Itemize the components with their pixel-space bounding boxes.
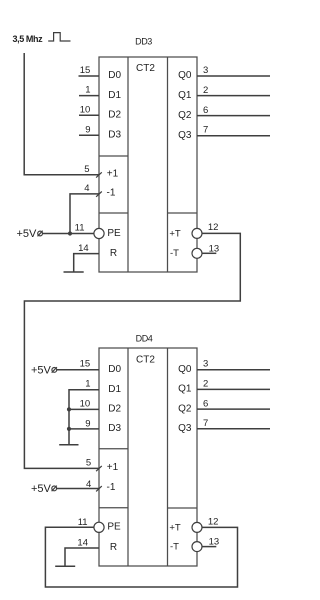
wire DD3 pin 12 (+T) to DD4 pin 5 (+1) bbox=[24, 233, 240, 468]
DD3 inner vertical line right field bbox=[167, 57, 169, 272]
svg-text:12: 12 bbox=[208, 222, 219, 233]
DD4 inner vertical line right field bbox=[167, 348, 169, 566]
svg-text:+T: +T bbox=[169, 522, 181, 533]
svg-text:7: 7 bbox=[203, 418, 208, 429]
DD4 Q1 output wire pin 2 bbox=[197, 388, 270, 390]
svg-text:5: 5 bbox=[86, 458, 91, 469]
svg-text:2: 2 bbox=[203, 85, 208, 96]
svg-text:1: 1 bbox=[85, 85, 90, 96]
wire clock to DD3 pin 5 (+1) bbox=[24, 53, 99, 175]
DD4 inner vertical line left field bbox=[127, 348, 129, 566]
svg-text:D0: D0 bbox=[108, 364, 121, 375]
svg-text:14: 14 bbox=[77, 537, 88, 548]
svg-text:-T: -T bbox=[170, 248, 179, 259]
feedback wire DD4 pin 12 (+T) to DD4 pin 11 (PE) bbox=[45, 527, 237, 587]
svg-text:Q1: Q1 bbox=[178, 384, 192, 395]
svg-text:11: 11 bbox=[75, 222, 85, 233]
svg-text:6: 6 bbox=[203, 399, 208, 410]
DD4 Q2 output wire pin 6 bbox=[197, 408, 270, 410]
DD3 left field divider below D3 bbox=[99, 155, 128, 157]
svg-text:D3: D3 bbox=[108, 129, 121, 140]
wire +5V to DD3 PE bbox=[43, 233, 94, 235]
DD4 left field divider below D3 bbox=[99, 448, 128, 450]
DD3 -T inversion bubble bbox=[192, 248, 202, 258]
DD3 pin 4 dynamic-input slash bbox=[96, 192, 102, 197]
svg-text:+1: +1 bbox=[107, 462, 119, 473]
DD3 Q0 output wire pin 3 bbox=[197, 75, 270, 77]
svg-text:6: 6 bbox=[203, 105, 208, 116]
svg-text:13: 13 bbox=[209, 243, 220, 254]
DD3 block outline bbox=[99, 57, 197, 272]
svg-text:PE: PE bbox=[107, 228, 121, 239]
DD3 pin 14 wire (R) to ground bbox=[74, 254, 99, 272]
junction dot D3/ground rail bbox=[67, 427, 71, 431]
svg-text:3,5 Mhz: 3,5 Mhz bbox=[13, 34, 44, 44]
counter DD3 bbox=[99, 36, 197, 272]
DD4 pin 4 dynamic-input slash bbox=[96, 486, 102, 491]
svg-text:-1: -1 bbox=[107, 187, 116, 198]
ground symbol DD4 R bbox=[55, 565, 75, 567]
svg-text:+5V: +5V bbox=[31, 483, 52, 495]
DD4 +T inversion bubble bbox=[192, 522, 202, 532]
svg-text:DD4: DD4 bbox=[136, 334, 153, 344]
svg-text:D2: D2 bbox=[108, 404, 121, 415]
DD4 pin 9 wire (D3) bbox=[69, 428, 99, 430]
DD3 +T inversion bubble bbox=[192, 228, 202, 238]
svg-text:D1: D1 bbox=[108, 90, 121, 101]
DD4 right field divider above +T bbox=[168, 507, 198, 509]
svg-text:13: 13 bbox=[209, 536, 220, 547]
svg-text:9: 9 bbox=[85, 418, 90, 429]
svg-text:D0: D0 bbox=[108, 70, 121, 81]
svg-text:5: 5 bbox=[84, 164, 89, 175]
DD3 pin 1 wire (D1) bbox=[79, 95, 99, 97]
svg-text:14: 14 bbox=[78, 243, 89, 254]
DD3 pin 4 wire (-1) tied to +5V node bbox=[70, 194, 99, 234]
svg-text:R: R bbox=[110, 542, 117, 553]
DD3 pin 13 stub (-T) bbox=[202, 252, 216, 254]
DD3 Q1 output wire pin 2 bbox=[197, 95, 270, 97]
+5V terminal circle symbol DD4 D0 bbox=[52, 368, 57, 373]
svg-text:D3: D3 bbox=[108, 423, 121, 434]
svg-text:4: 4 bbox=[84, 183, 89, 194]
junction dot D2/ground rail bbox=[67, 407, 71, 411]
DD4 pin 14 wire (R) to ground bbox=[65, 548, 99, 566]
svg-text:Q3: Q3 bbox=[178, 130, 192, 141]
svg-text:9: 9 bbox=[85, 124, 90, 135]
DD4 pin 15 wire (D0) bbox=[57, 369, 99, 371]
svg-text:15: 15 bbox=[80, 65, 91, 76]
DD4 Q0 output wire pin 3 bbox=[197, 369, 270, 371]
svg-text:+5V: +5V bbox=[31, 365, 52, 377]
svg-text:DD3: DD3 bbox=[135, 36, 152, 46]
svg-text:+1: +1 bbox=[107, 169, 119, 180]
DD4 -T inversion bubble bbox=[192, 542, 202, 552]
svg-text:R: R bbox=[110, 248, 117, 259]
DD3 PE inversion bubble bbox=[94, 228, 104, 238]
svg-text:Q0: Q0 bbox=[178, 364, 192, 375]
svg-text:D2: D2 bbox=[108, 110, 121, 121]
DD4 left field divider above PE bbox=[99, 507, 128, 509]
+5V terminal circle symbol DD4 -1 bbox=[52, 486, 57, 491]
svg-text:Q0: Q0 bbox=[178, 70, 192, 81]
svg-text:10: 10 bbox=[80, 399, 91, 410]
DD4 pin 4 wire (-1) bbox=[57, 488, 99, 490]
counter DD4 bbox=[99, 334, 197, 567]
svg-text:CT2: CT2 bbox=[136, 63, 155, 74]
svg-text:-1: -1 bbox=[107, 482, 116, 493]
DD3 Q2 output wire pin 6 bbox=[197, 115, 270, 117]
DD3 pin 15 wire (D0) bbox=[79, 75, 100, 77]
svg-text:1: 1 bbox=[85, 379, 90, 390]
DD4 pin 5 dynamic-input slash bbox=[96, 466, 102, 471]
svg-text:D1: D1 bbox=[108, 384, 121, 395]
DD3 pin 5 dynamic-input slash bbox=[96, 172, 102, 177]
svg-text:Q1: Q1 bbox=[178, 90, 192, 101]
clock pulse waveform symbol bbox=[48, 33, 70, 41]
svg-text:7: 7 bbox=[203, 125, 208, 136]
DD4 PE inversion bubble bbox=[94, 522, 104, 532]
ground symbol DD3 R bbox=[64, 271, 84, 273]
DD4 Q3 output wire pin 7 bbox=[197, 428, 270, 430]
svg-text:Q2: Q2 bbox=[178, 403, 192, 414]
svg-text:PE: PE bbox=[107, 522, 121, 533]
svg-text:15: 15 bbox=[80, 359, 91, 370]
svg-text:4: 4 bbox=[86, 479, 91, 490]
svg-text:Q2: Q2 bbox=[178, 110, 192, 121]
svg-text:+T: +T bbox=[169, 228, 181, 239]
svg-text:3: 3 bbox=[203, 65, 208, 76]
DD4 pin 13 stub (-T) bbox=[202, 546, 216, 548]
DD4 pin 10 wire (D2) bbox=[69, 408, 99, 410]
ground symbol DD4 data inputs bbox=[59, 444, 78, 446]
DD3 left field divider above PE bbox=[99, 212, 128, 214]
svg-text:CT2: CT2 bbox=[136, 354, 155, 365]
junction dot node +5V / -1 bbox=[68, 231, 72, 235]
svg-text:+5V: +5V bbox=[17, 228, 38, 240]
svg-text:-T: -T bbox=[170, 542, 179, 553]
svg-text:2: 2 bbox=[203, 379, 208, 390]
DD3 pin 10 wire (D2) bbox=[79, 114, 99, 116]
DD3 right field divider above +T bbox=[168, 212, 198, 214]
DD3 Q3 output wire pin 7 bbox=[197, 135, 270, 137]
DD3 inner vertical line left field bbox=[127, 57, 129, 272]
+5V terminal circle symbol bbox=[38, 231, 43, 236]
DD4 pin 1 wire (D1) to ground rail bbox=[69, 390, 99, 445]
DD4 block outline bbox=[99, 348, 197, 566]
svg-text:10: 10 bbox=[80, 104, 91, 115]
svg-text:12: 12 bbox=[208, 516, 219, 527]
DD3 pin 9 wire (D3) bbox=[79, 134, 99, 136]
svg-text:3: 3 bbox=[203, 359, 208, 370]
svg-text:11: 11 bbox=[78, 517, 88, 528]
svg-text:Q3: Q3 bbox=[178, 423, 192, 434]
